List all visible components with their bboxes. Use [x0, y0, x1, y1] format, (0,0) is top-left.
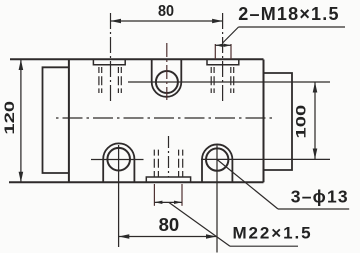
- svg-text:M22×1.5: M22×1.5: [233, 223, 313, 242]
- svg-text:80: 80: [159, 214, 180, 235]
- svg-text:120: 120: [2, 101, 18, 135]
- svg-text:100: 100: [293, 105, 309, 139]
- svg-text:3–ϕ13: 3–ϕ13: [291, 187, 349, 207]
- svg-text:80: 80: [158, 2, 174, 20]
- svg-text:2–M18×1.5: 2–M18×1.5: [238, 4, 339, 24]
